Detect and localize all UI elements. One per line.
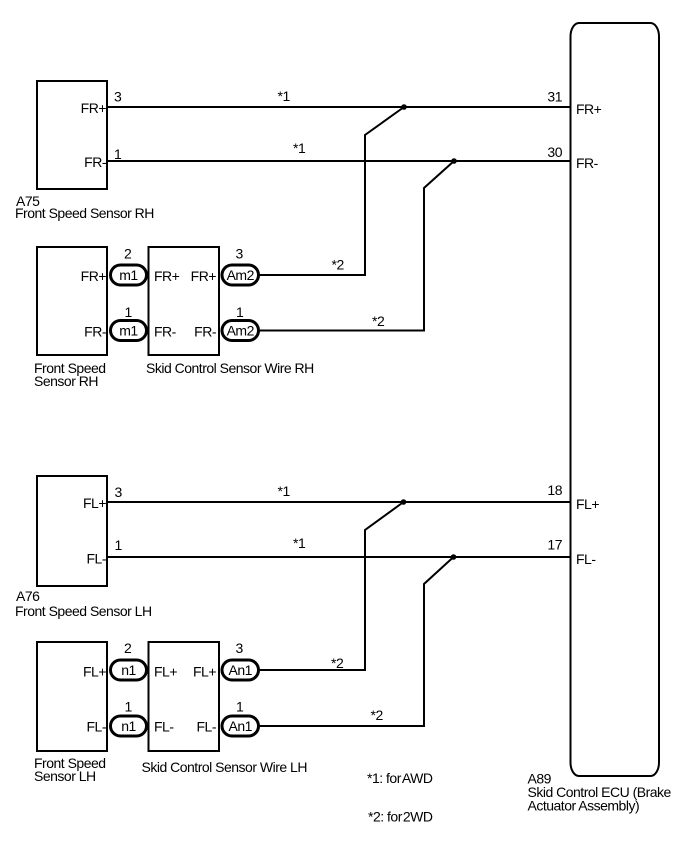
svg-text:3: 3 bbox=[114, 89, 122, 105]
svg-text:*2: *2 bbox=[331, 655, 344, 671]
svg-text:1: 1 bbox=[236, 304, 244, 320]
svg-text:2: 2 bbox=[124, 640, 132, 656]
svg-text:17: 17 bbox=[547, 537, 562, 553]
svg-text:1: 1 bbox=[236, 699, 244, 715]
svg-text:FR-: FR- bbox=[154, 324, 177, 340]
svg-text:30: 30 bbox=[547, 144, 562, 160]
svg-text:FL-: FL- bbox=[87, 551, 107, 567]
svg-text:Am2: Am2 bbox=[227, 267, 255, 283]
svg-text:*1: *1 bbox=[278, 88, 291, 104]
svg-text:m1: m1 bbox=[119, 267, 138, 283]
svg-text:*1: *1 bbox=[293, 535, 306, 551]
svg-text:Sensor RH: Sensor RH bbox=[34, 373, 98, 389]
svg-text:*1: *1 bbox=[278, 483, 291, 499]
svg-text:FR+: FR+ bbox=[81, 100, 107, 116]
svg-text:FR-: FR- bbox=[84, 324, 107, 340]
svg-text:Skid Control Sensor Wire LH: Skid Control Sensor Wire LH bbox=[142, 759, 307, 775]
svg-text:*2: *2 bbox=[372, 313, 385, 329]
svg-text:n1: n1 bbox=[121, 718, 136, 734]
svg-text:A76: A76 bbox=[16, 588, 40, 604]
svg-text:FL+: FL+ bbox=[576, 496, 599, 512]
svg-text:2: 2 bbox=[124, 246, 132, 262]
svg-text:3: 3 bbox=[236, 640, 244, 656]
svg-text:An1: An1 bbox=[229, 662, 253, 678]
svg-text:FL-: FL- bbox=[576, 551, 596, 567]
svg-text:*2: *2 bbox=[332, 257, 345, 273]
svg-text:1: 1 bbox=[125, 699, 133, 715]
svg-text:An1: An1 bbox=[229, 718, 253, 734]
svg-text:*2: for2WD: *2: for2WD bbox=[368, 809, 433, 825]
svg-text:1: 1 bbox=[125, 304, 133, 320]
svg-text:FR-: FR- bbox=[84, 154, 107, 170]
svg-text:FR-: FR- bbox=[194, 324, 217, 340]
svg-text:FL+: FL+ bbox=[154, 664, 177, 680]
svg-text:FL-: FL- bbox=[197, 719, 217, 735]
svg-text:FL+: FL+ bbox=[83, 495, 106, 511]
svg-text:Front Speed Sensor RH: Front Speed Sensor RH bbox=[15, 205, 154, 221]
svg-text:Front Speed Sensor LH: Front Speed Sensor LH bbox=[15, 603, 152, 619]
svg-text:FL+: FL+ bbox=[83, 664, 106, 680]
svg-text:Skid Control Sensor Wire RH: Skid Control Sensor Wire RH bbox=[146, 360, 314, 376]
svg-text:Am2: Am2 bbox=[227, 323, 255, 339]
svg-text:3: 3 bbox=[236, 246, 244, 262]
svg-text:FL+: FL+ bbox=[193, 664, 216, 680]
svg-text:*2: *2 bbox=[371, 707, 384, 723]
svg-text:m1: m1 bbox=[119, 323, 138, 339]
svg-text:Actuator Assembly): Actuator Assembly) bbox=[528, 798, 640, 814]
svg-text:31: 31 bbox=[547, 89, 562, 105]
svg-text:FR+: FR+ bbox=[154, 268, 180, 284]
svg-text:FL-: FL- bbox=[154, 719, 174, 735]
svg-text:1: 1 bbox=[114, 146, 122, 162]
svg-text:FR+: FR+ bbox=[576, 101, 602, 117]
svg-text:*1: forAWD: *1: forAWD bbox=[367, 770, 433, 786]
svg-text:FL-: FL- bbox=[87, 719, 107, 735]
svg-text:*1: *1 bbox=[293, 140, 306, 156]
svg-text:FR-: FR- bbox=[576, 155, 599, 171]
svg-text:FR+: FR+ bbox=[81, 268, 107, 284]
svg-text:3: 3 bbox=[115, 484, 123, 500]
svg-text:Sensor LH: Sensor LH bbox=[34, 768, 96, 784]
svg-text:n1: n1 bbox=[121, 662, 136, 678]
svg-text:1: 1 bbox=[115, 537, 123, 553]
svg-text:FR+: FR+ bbox=[191, 268, 217, 284]
svg-text:18: 18 bbox=[547, 482, 562, 498]
